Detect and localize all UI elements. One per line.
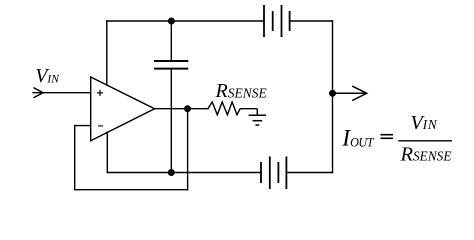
node IOUT arrow: [333, 86, 367, 101]
svg-text:VIN: VIN: [35, 65, 60, 87]
svg-text:VIN: VIN: [411, 112, 438, 134]
wire op-amp V+ supply riser: [106, 21, 108, 85]
svg-text:RSENSE: RSENSE: [400, 143, 452, 165]
battery B2 bottom: [261, 157, 286, 190]
wire VIN input shaft: [33, 92, 91, 94]
node junction dot op-amp output: [184, 105, 191, 112]
wire feedback right vertical: [187, 109, 189, 190]
wire top rail left segment: [107, 20, 263, 22]
wire op-amp V- supply drop: [106, 132, 108, 172]
node VIN arrow: [34, 88, 43, 98]
label equals sign: [381, 135, 394, 139]
battery B1 top: [264, 5, 290, 37]
wire bottom rail right segment: [287, 172, 332, 174]
node junction dot top rail: [168, 18, 175, 25]
ground: [249, 109, 266, 125]
op-amp U1: [91, 77, 155, 141]
wire feedback bottom horizontal: [75, 189, 188, 191]
op-amp minus input label: [98, 125, 103, 127]
wire bottom rail left segment: [107, 172, 260, 174]
svg-text:RSENSE: RSENSE: [215, 80, 268, 102]
wire op-amp output: [155, 108, 208, 110]
wire top rail right segment: [290, 20, 332, 22]
wire capacitor bottom lead crossover: [170, 69, 172, 173]
wire inverting input stub: [75, 125, 91, 127]
op-amp plus input label: [97, 90, 103, 96]
wire feedback left vertical: [74, 126, 76, 190]
capacitor C1: [154, 61, 188, 69]
wire right rail: [332, 21, 334, 173]
wire fraction bar: [398, 140, 452, 142]
node junction dot right rail output: [329, 90, 336, 97]
resistor RSENSE: [208, 102, 257, 115]
node junction dot bottom rail: [168, 169, 175, 176]
wire capacitor top lead: [170, 21, 172, 61]
svg-text:IOUT: IOUT: [341, 125, 374, 151]
